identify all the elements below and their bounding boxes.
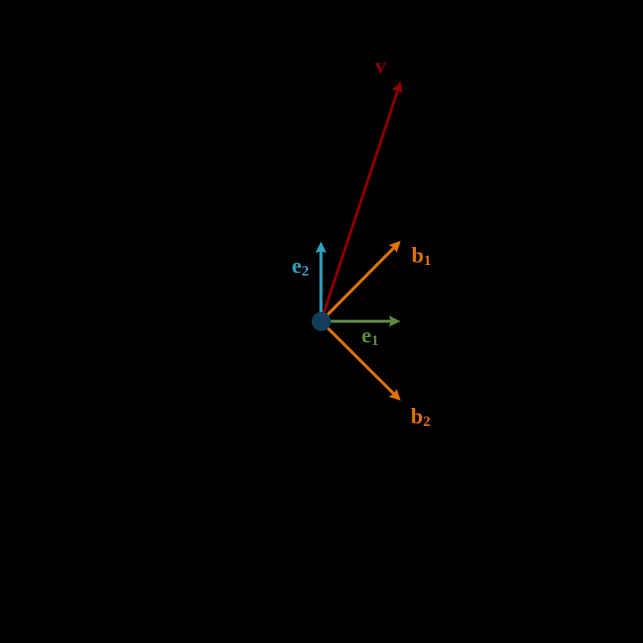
origin dot [312, 312, 331, 331]
vector b1 (orange) [321, 241, 401, 321]
vector e2 (teal) [315, 242, 326, 322]
vector v (dark red) [321, 81, 402, 321]
vector e1 (green) [321, 316, 401, 327]
vector b2 (orange) [321, 321, 401, 401]
svg-text:v: v [375, 53, 386, 78]
